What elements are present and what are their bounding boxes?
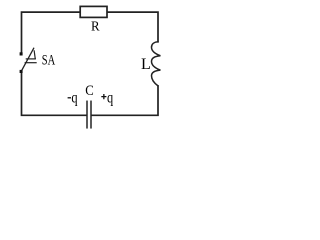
svg-text:q: q bbox=[107, 89, 113, 106]
svg-text:SA: SA bbox=[42, 53, 56, 69]
svg-text:R: R bbox=[91, 20, 100, 35]
svg-text:C: C bbox=[85, 83, 94, 99]
svg-text:L: L bbox=[141, 56, 151, 73]
svg-text:q: q bbox=[71, 89, 77, 106]
